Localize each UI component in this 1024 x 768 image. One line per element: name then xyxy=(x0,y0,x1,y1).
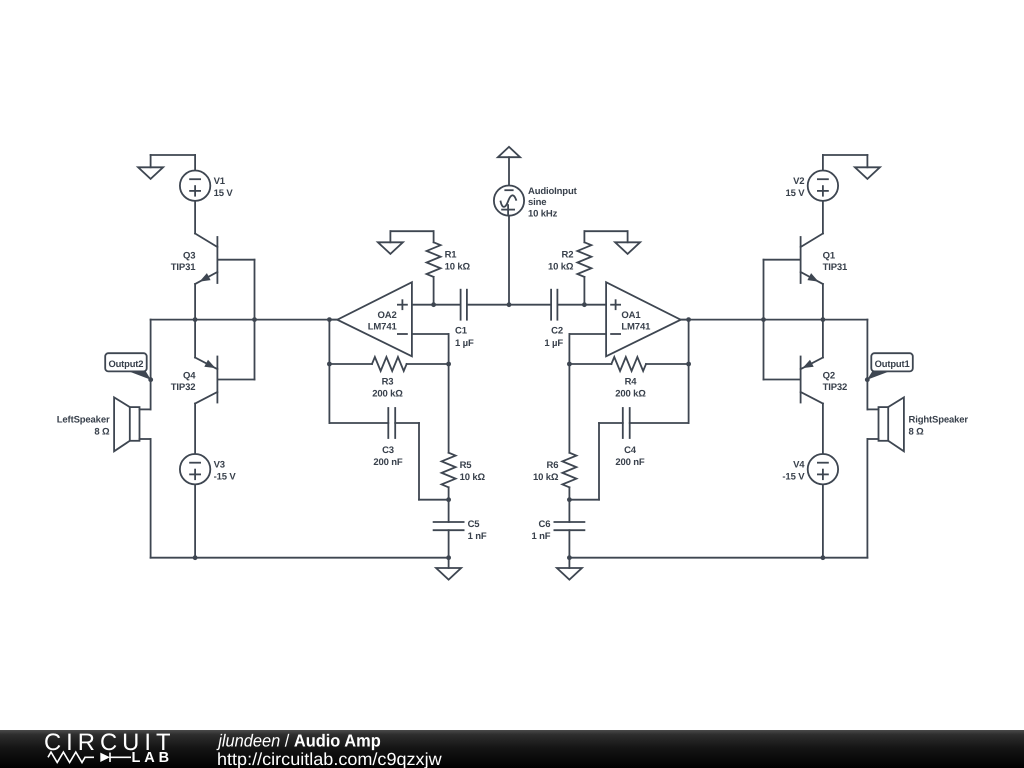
svg-text:R6: R6 xyxy=(547,460,559,471)
label Q4 xyxy=(171,371,196,393)
svg-text:Q3: Q3 xyxy=(183,251,195,262)
label R2 value xyxy=(548,250,574,273)
wire Output2 node down xyxy=(150,320,152,410)
resistor R4 xyxy=(569,357,688,371)
wire OA1 + input xyxy=(584,304,606,306)
label OA2 xyxy=(368,310,398,332)
svg-text:1 nF: 1 nF xyxy=(531,531,550,542)
wire V3 to bottom rail xyxy=(194,484,196,557)
wire R2 to ground xyxy=(584,231,627,242)
svg-text:15 V: 15 V xyxy=(785,188,805,199)
svg-text:LAB: LAB xyxy=(132,750,174,766)
wire bottom rail right xyxy=(569,557,867,559)
wire V2 top to ground xyxy=(823,155,868,171)
svg-text:10 kΩ: 10 kΩ xyxy=(548,262,574,273)
label RightSpeaker value xyxy=(909,414,969,437)
label Q1 xyxy=(823,251,848,273)
svg-text:R4: R4 xyxy=(625,377,638,388)
transistor Q1 TIP31 xyxy=(764,234,823,285)
footer bar xyxy=(0,730,1024,768)
wire C2 to center node xyxy=(509,304,551,306)
svg-text:OA2: OA2 xyxy=(378,310,397,321)
svg-text:8 Ω: 8 Ω xyxy=(94,426,110,437)
svg-text:V1: V1 xyxy=(214,176,226,187)
wire Q3 emitter to node xyxy=(194,284,196,320)
svg-text:C1: C1 xyxy=(455,326,468,337)
svg-text:C5: C5 xyxy=(468,519,481,530)
svg-text:http://circuitlab.com/c9qzxjw: http://circuitlab.com/c9qzxjw xyxy=(217,749,442,768)
ground (top right) xyxy=(855,167,880,179)
svg-text:V4: V4 xyxy=(793,459,805,470)
voltage source V2 xyxy=(808,171,838,201)
label V3 value xyxy=(214,459,237,482)
op-amp OA1 xyxy=(606,282,681,356)
wire Q4 collector to V3 xyxy=(194,404,196,455)
capacitor C2 xyxy=(551,290,557,320)
svg-text:Q4: Q4 xyxy=(183,371,196,382)
wire speaker to bottom rail (right) xyxy=(866,439,868,558)
transistor Q3 TIP31 xyxy=(195,234,254,285)
op-amp OA2 xyxy=(337,282,412,356)
wire V1 top to ground xyxy=(151,155,196,171)
svg-text:200 nF: 200 nF xyxy=(373,457,403,468)
wire R1 to ground xyxy=(390,231,433,242)
svg-text:R2: R2 xyxy=(562,250,574,261)
svg-text:sine: sine xyxy=(528,197,546,208)
wire flag to AudioInput xyxy=(508,157,510,185)
svg-text:AudioInput: AudioInput xyxy=(528,186,578,197)
footer url xyxy=(217,749,442,768)
wire Q1 emitter to node xyxy=(822,284,824,320)
wire OA1 - input xyxy=(569,334,606,364)
wire base bus Q3/Q4 xyxy=(254,260,256,380)
wire bottom rail left xyxy=(151,557,449,559)
wire OA2 output xyxy=(329,319,337,321)
svg-text:-15 V: -15 V xyxy=(782,471,805,482)
svg-text:200 kΩ: 200 kΩ xyxy=(372,389,403,400)
svg-text:C6: C6 xyxy=(539,519,551,530)
junction dots xyxy=(193,302,826,560)
capacitor C6 xyxy=(554,500,584,558)
ground (R2) xyxy=(615,242,640,254)
label LeftSpeaker value xyxy=(57,414,110,437)
label C4 value xyxy=(615,445,645,468)
svg-text:LM741: LM741 xyxy=(621,321,651,332)
svg-text:TIP32: TIP32 xyxy=(171,382,196,393)
svg-text:200 nF: 200 nF xyxy=(615,457,645,468)
wire C1 to center node xyxy=(467,304,509,306)
transistor Q2 TIP32 xyxy=(764,320,823,404)
wire OA2 output to R3/C3 xyxy=(328,320,330,423)
label C5 value xyxy=(468,519,487,542)
label C3 value xyxy=(373,445,403,468)
svg-text:Output2: Output2 xyxy=(108,358,143,369)
svg-text:C4: C4 xyxy=(624,445,637,456)
CircuitLab logo resistor xyxy=(48,752,94,762)
voltage source V3 xyxy=(180,454,210,484)
wire C3 left xyxy=(329,422,388,424)
wire OA2 + input xyxy=(412,304,434,306)
resistor R5 xyxy=(442,364,456,500)
svg-text:10 kΩ: 10 kΩ xyxy=(460,472,486,483)
flag Output1 xyxy=(865,353,913,382)
power flag (AudioInput) xyxy=(498,147,520,157)
resistor R1 xyxy=(427,231,441,305)
svg-text:LeftSpeaker: LeftSpeaker xyxy=(57,414,110,425)
wire Output1 node down xyxy=(866,320,868,410)
label R5 value xyxy=(460,460,486,483)
wire OA2 - input xyxy=(412,334,449,364)
wire V2 to Q1 collector xyxy=(822,201,824,234)
svg-text:jlundeen / Audio Amp: jlundeen / Audio Amp xyxy=(216,731,380,751)
svg-text:V2: V2 xyxy=(793,176,804,187)
wire V4 to bottom rail xyxy=(822,484,824,557)
label C1 value xyxy=(455,326,474,349)
svg-text:C2: C2 xyxy=(551,326,563,337)
ground (top left) xyxy=(138,167,163,179)
capacitor C3 xyxy=(388,408,395,438)
svg-text:1 µF: 1 µF xyxy=(544,338,563,349)
label Q2 xyxy=(823,371,848,393)
ground (left rail) xyxy=(436,568,461,580)
voltage source V1 xyxy=(180,171,210,201)
svg-text:TIP31: TIP31 xyxy=(823,262,848,273)
label C2 value xyxy=(544,326,563,349)
label Q3 xyxy=(171,251,196,273)
source AudioInput sine xyxy=(494,186,524,216)
wire base bus Q1/Q2 xyxy=(763,260,765,380)
wire C3 to R5 node xyxy=(395,423,448,500)
voltage source V4 xyxy=(808,454,838,484)
resistor R3 xyxy=(329,357,448,371)
wire node row left xyxy=(151,319,338,321)
svg-text:TIP32: TIP32 xyxy=(823,382,848,393)
capacitor C1 xyxy=(461,290,467,320)
ground (R1) xyxy=(378,242,403,254)
label V4 value xyxy=(782,459,805,482)
footer title xyxy=(216,731,380,751)
wire Q2 collector to V4 xyxy=(822,404,824,455)
wire C4 right xyxy=(630,422,689,424)
resistor R6 xyxy=(562,364,576,500)
svg-text:Q1: Q1 xyxy=(823,251,836,262)
svg-text:LM741: LM741 xyxy=(368,321,398,332)
label R1 value xyxy=(445,250,471,273)
wire AudioInput to node xyxy=(508,216,510,305)
svg-text:Output1: Output1 xyxy=(875,358,910,369)
label R6 value xyxy=(533,460,559,483)
svg-text:OA1: OA1 xyxy=(621,310,641,321)
svg-text:10 kHz: 10 kHz xyxy=(528,208,558,219)
svg-text:15 V: 15 V xyxy=(214,188,234,199)
speaker RightSpeaker xyxy=(867,397,904,451)
label C6 value xyxy=(531,519,550,542)
label OA1 xyxy=(621,310,651,332)
wire node row right xyxy=(681,319,868,321)
label V2 value xyxy=(785,176,805,199)
svg-text:-15 V: -15 V xyxy=(214,471,237,482)
svg-text:200 kΩ: 200 kΩ xyxy=(615,389,646,400)
wire to ground (right rail) xyxy=(568,558,570,568)
label R3 value xyxy=(372,377,403,400)
svg-text:Q2: Q2 xyxy=(823,371,835,382)
svg-text:1 nF: 1 nF xyxy=(468,531,487,542)
svg-text:C3: C3 xyxy=(382,445,394,456)
wire C4 to R6 node xyxy=(569,423,622,500)
svg-text:R5: R5 xyxy=(460,460,473,471)
transistor Q4 TIP32 xyxy=(195,320,254,404)
label R4 value xyxy=(615,377,646,400)
wire R2 node to C2 xyxy=(557,304,584,306)
wire OA1 output to R4/C4 xyxy=(688,320,690,423)
svg-text:RightSpeaker: RightSpeaker xyxy=(909,414,969,425)
label AudioInput value xyxy=(528,186,578,219)
capacitor C5 xyxy=(434,500,464,558)
label V1 value xyxy=(214,176,234,199)
svg-text:10 kΩ: 10 kΩ xyxy=(445,262,471,273)
svg-text:R3: R3 xyxy=(382,377,394,388)
speaker LeftSpeaker xyxy=(114,397,151,451)
wire speaker to bottom rail xyxy=(150,439,152,558)
flag Output2 xyxy=(105,353,153,382)
svg-text:1 µF: 1 µF xyxy=(455,338,474,349)
wire V1 to Q3 collector xyxy=(194,201,196,234)
svg-text:10 kΩ: 10 kΩ xyxy=(533,472,559,483)
svg-text:TIP31: TIP31 xyxy=(171,262,196,273)
svg-text:V3: V3 xyxy=(214,459,225,470)
svg-text:8 Ω: 8 Ω xyxy=(909,426,925,437)
wire OA1 output xyxy=(681,319,689,321)
ground (right rail) xyxy=(557,568,582,580)
wire to ground (left rail) xyxy=(448,558,450,568)
svg-text:R1: R1 xyxy=(445,250,458,261)
capacitor C4 xyxy=(623,408,630,438)
wire R1 node to C1 xyxy=(434,304,461,306)
resistor R2 xyxy=(577,231,591,305)
CircuitLab logo diode xyxy=(100,753,110,762)
